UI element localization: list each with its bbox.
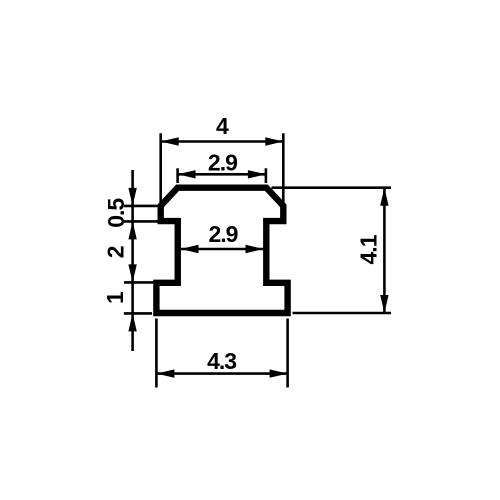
svg-text:2.9: 2.9: [208, 150, 237, 176]
svg-text:2: 2: [103, 246, 129, 258]
svg-text:4: 4: [216, 113, 229, 139]
svg-text:0.5: 0.5: [103, 198, 129, 228]
svg-text:1: 1: [102, 291, 128, 304]
svg-text:2.9: 2.9: [209, 221, 238, 247]
svg-text:4.1: 4.1: [355, 234, 381, 264]
svg-text:4.3: 4.3: [207, 348, 236, 374]
